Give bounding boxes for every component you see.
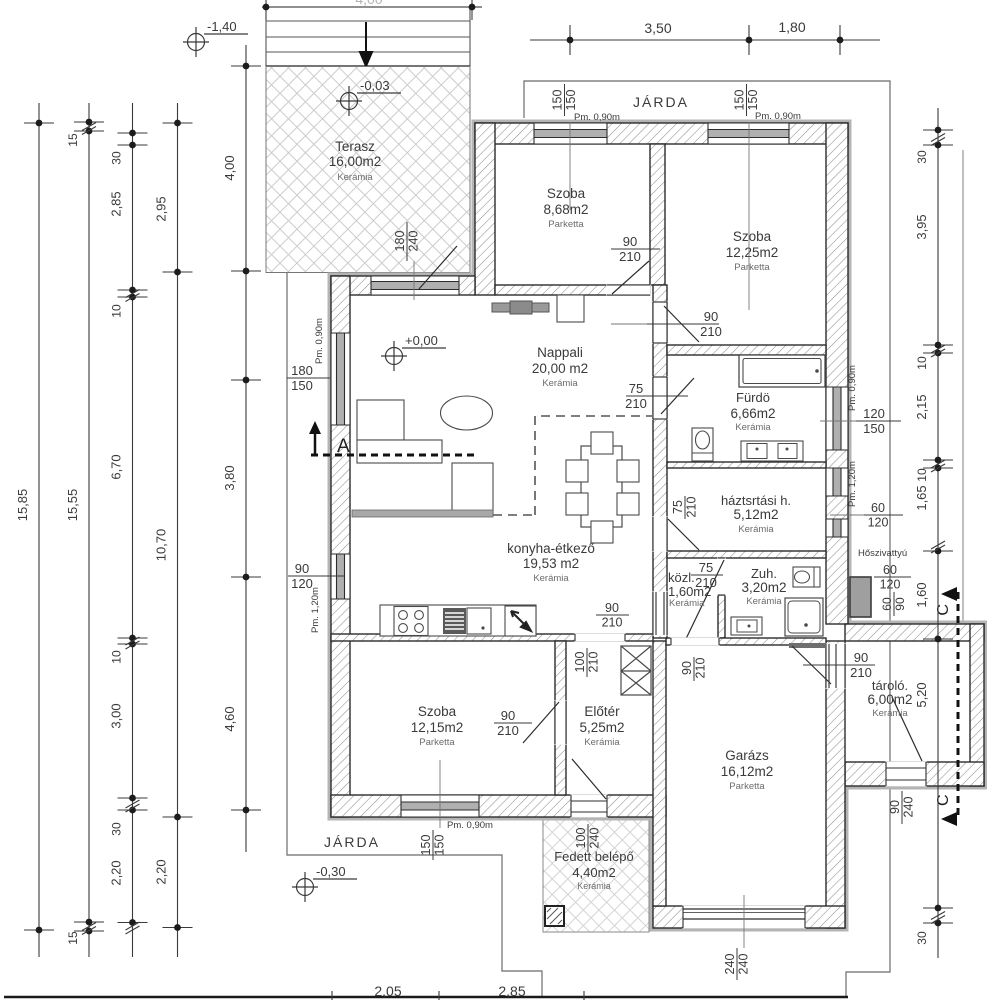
svg-text:3,50: 3,50 xyxy=(644,20,671,36)
svg-text:16,12m2: 16,12m2 xyxy=(721,764,774,779)
svg-text:240: 240 xyxy=(723,954,737,975)
svg-text:10: 10 xyxy=(915,468,929,482)
wall: partition háztartási | közl+Zuh xyxy=(667,551,826,558)
room label: közl. xyxy=(668,570,711,609)
svg-text:75: 75 xyxy=(671,500,685,514)
svg-text:150: 150 xyxy=(433,835,447,856)
svg-text:háztsrtási h.: háztsrtási h. xyxy=(721,493,791,508)
svg-text:150: 150 xyxy=(551,90,565,111)
covered entry (Fedett belépő) slab xyxy=(543,820,649,932)
wall: partition Szoba 12,15 | Előtér xyxy=(555,641,566,795)
svg-text:5,12m2: 5,12m2 xyxy=(733,507,778,522)
level marker: +0,00 xyxy=(381,341,446,371)
oven xyxy=(443,608,466,634)
section marker C top xyxy=(935,587,958,700)
window: konyha left window 90/120 xyxy=(331,554,350,599)
door opening: Szoba 8,68 xyxy=(606,284,650,295)
door leaf: Szoba 12,25 xyxy=(664,306,699,342)
svg-text:150: 150 xyxy=(733,90,747,111)
svg-text:90: 90 xyxy=(888,800,902,814)
svg-text:90: 90 xyxy=(854,650,868,665)
svg-text:Kerámia: Kerámia xyxy=(735,422,771,433)
svg-text:2,20: 2,20 xyxy=(109,860,124,885)
svg-text:Parketta: Parketta xyxy=(419,737,455,748)
wall: partition közl | Zuh xyxy=(718,595,725,638)
svg-text:5,25m2: 5,25m2 xyxy=(579,720,624,735)
svg-text:Kerámia: Kerámia xyxy=(533,573,569,584)
wall: garage left xyxy=(653,641,666,906)
wall: tároló right xyxy=(970,624,984,786)
svg-text:120: 120 xyxy=(880,578,901,592)
svg-text:JÁRDA: JÁRDA xyxy=(633,94,689,110)
wall: partition Fürdő | háztartási xyxy=(667,462,826,468)
svg-text:240: 240 xyxy=(588,828,602,849)
svg-text:150: 150 xyxy=(291,378,313,393)
stairs down arrow xyxy=(360,22,372,66)
label: 90/210 tároló door xyxy=(803,650,875,680)
door leaf: Fürdő xyxy=(661,378,694,414)
svg-text:2,95: 2,95 xyxy=(154,196,169,221)
svg-text:15: 15 xyxy=(66,931,80,945)
dining chair 4 xyxy=(566,493,588,515)
svg-text:Kerámia: Kerámia xyxy=(584,737,620,748)
window: Szoba 12,25 top window 150/150 xyxy=(708,123,789,144)
window: háztartási right window 60/120 b xyxy=(826,519,848,537)
door opening: Szoba 12,15 xyxy=(554,700,566,744)
svg-text:210: 210 xyxy=(619,249,641,264)
svg-text:150: 150 xyxy=(863,421,885,436)
wall: partition Szoba 12,25 | Fürdő xyxy=(667,345,826,355)
svg-text:30: 30 xyxy=(915,150,929,164)
label: 90/210 Szoba 8,68 door xyxy=(611,234,660,264)
door leaf: Zuh xyxy=(683,560,724,645)
label: 75/210 háztartási door xyxy=(671,496,699,519)
svg-text:12,25m2: 12,25m2 xyxy=(726,245,779,260)
svg-text:4,00: 4,00 xyxy=(355,0,382,7)
wall: exterior left xyxy=(331,276,350,817)
plot bottom border line xyxy=(4,996,848,999)
svg-text:Kerámia: Kerámia xyxy=(669,598,705,609)
room label: tároló. xyxy=(867,678,912,719)
wall: tároló top xyxy=(845,624,984,641)
label: 120/150 Fürdő window xyxy=(856,406,901,436)
fürdő window leader xyxy=(820,420,856,422)
svg-text:tároló.: tároló. xyxy=(872,678,908,693)
svg-text:240: 240 xyxy=(902,797,916,818)
room label: Szoba 8,68 xyxy=(543,186,588,230)
WC (Zuh) xyxy=(793,567,820,587)
svg-text:90: 90 xyxy=(501,708,515,723)
top dimension line 3,50/1,80 xyxy=(530,25,880,55)
svg-text:30: 30 xyxy=(110,151,124,165)
svg-text:150: 150 xyxy=(419,835,433,856)
wall: Nappali top (to terrace) xyxy=(331,276,475,295)
window: Szoba 8,68 top window 150/150 xyxy=(534,123,607,144)
door leaf: Szoba 12,15 xyxy=(523,702,559,743)
sideboard (Nappali top) xyxy=(492,303,549,312)
rug (oval, Nappali) xyxy=(441,396,493,430)
svg-text:4,00: 4,00 xyxy=(222,155,237,180)
section marker C bottom xyxy=(935,700,958,826)
svg-text:60: 60 xyxy=(871,501,885,515)
label: 60/120 heat pump xyxy=(874,563,911,592)
WC (Fürdő) xyxy=(692,428,713,461)
label: 90/210 Szoba 12,15 door xyxy=(494,708,532,738)
svg-text:Pm. 0,90m: Pm. 0,90m xyxy=(755,111,801,122)
svg-text:Kerámia: Kerámia xyxy=(577,881,611,891)
door threshold garage/tároló xyxy=(789,643,826,648)
svg-text:10: 10 xyxy=(110,650,124,664)
svg-text:1,65: 1,65 xyxy=(914,485,929,510)
svg-text:30: 30 xyxy=(915,931,929,945)
exterior plaster band xyxy=(331,123,984,928)
kitchen counter block C xyxy=(452,463,493,514)
door opening: háztartási h. xyxy=(652,516,667,551)
door leaf: Szoba 8,68 xyxy=(612,261,649,294)
kitchen worktop edge xyxy=(352,510,493,517)
svg-text:Parketta: Parketta xyxy=(734,262,770,273)
svg-text:Kerámia: Kerámia xyxy=(542,378,578,389)
kitchen counter block B xyxy=(357,440,442,463)
dimension chain: left 4 xyxy=(154,103,193,957)
svg-text:100: 100 xyxy=(574,828,588,849)
doormat (Fedett belépő) xyxy=(545,906,564,926)
wall: partition Szoba 8,68 bottom xyxy=(495,285,650,295)
kitchen area dashed boundary xyxy=(493,416,652,515)
svg-text:20,00 m2: 20,00 m2 xyxy=(532,361,588,376)
svg-text:240: 240 xyxy=(407,231,421,252)
label: 100/240 entrance door xyxy=(574,824,602,852)
svg-text:Pm. 0,90m: Pm. 0,90m xyxy=(447,820,493,831)
svg-text:15,85: 15,85 xyxy=(15,489,30,522)
svg-text:Pm. 0,90m: Pm. 0,90m xyxy=(847,365,858,411)
svg-text:210: 210 xyxy=(850,665,872,680)
dishwasher (electric symbol) xyxy=(505,606,536,636)
door opening: entrance (Előtér) xyxy=(570,794,607,817)
label: 180/150 Nappali window xyxy=(287,363,330,393)
svg-text:JÁRDA: JÁRDA xyxy=(324,834,380,850)
svg-text:16,00m2: 16,00m2 xyxy=(329,154,382,169)
svg-text:5,20: 5,20 xyxy=(914,682,929,707)
svg-text:3,00: 3,00 xyxy=(109,703,124,728)
svg-text:3,95: 3,95 xyxy=(914,214,929,239)
label: 90/210 közl opening xyxy=(596,601,629,630)
svg-text:210: 210 xyxy=(685,497,699,518)
terrace door leader xyxy=(413,261,415,300)
wall: exterior bottom (Szoba 12,15 + Előtér) xyxy=(331,795,666,817)
door opening: Fürdő xyxy=(652,376,667,419)
svg-text:közl.: közl. xyxy=(668,570,695,585)
svg-text:Nappali: Nappali xyxy=(537,345,583,360)
svg-text:Kerámia: Kerámia xyxy=(738,524,774,535)
svg-text:Fürdö: Fürdö xyxy=(736,390,770,405)
svg-text:Szoba: Szoba xyxy=(733,229,772,244)
svg-text:15,55: 15,55 xyxy=(65,489,80,522)
wall: partition közl/Zuh | garage xyxy=(666,638,826,645)
section marker A xyxy=(309,421,478,457)
svg-text:210: 210 xyxy=(497,723,519,738)
wall: partition Szoba 8,68 | Szoba 12,25 xyxy=(650,144,665,285)
svg-text:Parketta: Parketta xyxy=(729,781,765,792)
svg-text:Zuh.: Zuh. xyxy=(751,566,777,581)
room label: Szoba 12,25 xyxy=(726,229,779,273)
svg-text:Pm. 1,20m: Pm. 1,20m xyxy=(847,461,858,507)
label: 100/210 konyha-Előtér xyxy=(573,648,601,677)
svg-text:180: 180 xyxy=(393,231,407,252)
terrace (Terasz) slab xyxy=(266,67,470,273)
double washbasin (Fürdő) xyxy=(741,441,803,461)
svg-text:90: 90 xyxy=(295,561,309,576)
dining chair 5 xyxy=(617,460,639,482)
door opening: garage gate xyxy=(682,905,805,928)
svg-text:30: 30 xyxy=(110,822,124,836)
svg-text:+0,00: +0,00 xyxy=(405,333,438,348)
svg-text:210: 210 xyxy=(694,658,708,679)
room label: Zuh. xyxy=(741,566,786,607)
svg-text:6,66m2: 6,66m2 xyxy=(730,406,775,421)
window: Szoba 12,15 bottom window 150/150 xyxy=(401,795,479,817)
svg-text:90: 90 xyxy=(704,309,718,324)
door leaf: garage to tároló xyxy=(792,646,831,684)
svg-text:Pm. 0,90m: Pm. 0,90m xyxy=(314,318,325,364)
dining table xyxy=(581,446,622,527)
svg-text:90: 90 xyxy=(623,234,637,249)
window: Nappali left window 180/150 xyxy=(331,333,350,425)
svg-text:210: 210 xyxy=(625,396,647,411)
háztartási window leader xyxy=(830,514,864,516)
room label: Fürdő xyxy=(730,390,775,433)
svg-text:1,80: 1,80 xyxy=(778,19,805,35)
label: 150/150 window Szoba 8,68 xyxy=(551,84,579,116)
svg-text:90: 90 xyxy=(605,601,619,615)
svg-text:150: 150 xyxy=(746,90,760,111)
label: 60/90 heat pump xyxy=(880,592,907,616)
door leaf: háztartási h. xyxy=(668,519,699,550)
room label: Előtér xyxy=(579,704,624,748)
washbasin (Zuh) xyxy=(731,617,762,635)
svg-text:15: 15 xyxy=(66,133,80,147)
svg-text:Terasz: Terasz xyxy=(335,139,375,154)
label: 90/240 tároló ext door xyxy=(888,791,916,824)
svg-text:210: 210 xyxy=(602,616,623,630)
svg-text:90: 90 xyxy=(893,597,907,611)
svg-text:Parketta: Parketta xyxy=(548,219,584,230)
svg-text:Előtér: Előtér xyxy=(584,704,620,719)
svg-text:60: 60 xyxy=(880,597,894,611)
kitchen appliance counter xyxy=(380,605,536,636)
dining chair 3 xyxy=(566,460,588,482)
wall: garage right xyxy=(826,641,845,928)
dimension chain: left 3 xyxy=(109,103,148,957)
svg-text:Pm. 0,90m: Pm. 0,90m xyxy=(574,112,620,123)
svg-text:2,20: 2,20 xyxy=(154,859,169,884)
svg-text:-1,40: -1,40 xyxy=(207,19,237,34)
svg-text:10: 10 xyxy=(915,356,929,370)
room label: Szoba 12,15 xyxy=(411,704,464,748)
door opening: konyha to Előtér passage xyxy=(574,633,625,641)
svg-text:Szoba: Szoba xyxy=(418,704,457,719)
svg-text:3,20m2: 3,20m2 xyxy=(741,580,786,595)
svg-text:210: 210 xyxy=(587,652,601,673)
door opening: közl to garage xyxy=(670,637,719,645)
door leaf: terrace french door xyxy=(419,246,457,289)
dimension chain: left 5 (house left) xyxy=(222,45,261,852)
svg-text:240: 240 xyxy=(737,954,751,975)
svg-text:3,80: 3,80 xyxy=(222,465,237,490)
door opening: közl from konyha xyxy=(652,591,667,635)
kitchen sink xyxy=(467,608,491,634)
svg-text:Pm. 1,20m: Pm. 1,20m xyxy=(310,587,321,633)
window: háztartási right window 60/120 a xyxy=(826,468,848,496)
label: 60/120 háztartási window xyxy=(864,501,903,530)
svg-text:konyha-étkező: konyha-étkező xyxy=(507,541,595,556)
shower tray (Zuh) xyxy=(785,598,823,636)
svg-text:60: 60 xyxy=(883,563,897,577)
svg-text:2,85: 2,85 xyxy=(109,191,124,216)
bathtub xyxy=(739,355,825,387)
dining chair 1 xyxy=(591,432,613,454)
svg-text:210: 210 xyxy=(695,575,717,590)
svg-text:Kerámia: Kerámia xyxy=(746,596,782,607)
dimension chain: left 1 (15,85) xyxy=(15,103,54,957)
svg-text:6,70: 6,70 xyxy=(109,454,124,479)
svg-text:19,53 m2: 19,53 m2 xyxy=(523,556,579,571)
svg-text:Hőszivattyú: Hőszivattyú xyxy=(858,548,907,559)
label: 150/150 bottom window xyxy=(419,830,447,860)
kitchen counter block A xyxy=(357,400,404,440)
window leader Szoba 12,25 xyxy=(748,122,750,310)
svg-text:120: 120 xyxy=(863,406,885,421)
dimension chain: left 2 (15,55) xyxy=(65,103,104,957)
room label: konyha-étkező xyxy=(507,541,595,584)
svg-text:10: 10 xyxy=(110,304,124,318)
label: 90/210 közl-garage door xyxy=(680,657,708,681)
label: 180/240 terrace door xyxy=(393,222,421,261)
top cut dimension line xyxy=(262,0,482,20)
room label: Terasz xyxy=(329,139,382,183)
svg-text:Szoba: Szoba xyxy=(547,186,586,201)
sidewalk boundary (JÁRDA) top/right xyxy=(524,81,890,996)
room label: Fedett belépő xyxy=(554,849,634,891)
svg-text:4,40m2: 4,40m2 xyxy=(572,865,615,880)
label: 150/150 window Szoba 12,25 xyxy=(733,84,761,116)
garage gate leader xyxy=(743,895,745,948)
svg-text:100: 100 xyxy=(573,652,587,673)
wall: partition Nappali | east rooms xyxy=(653,285,667,638)
svg-text:90: 90 xyxy=(680,661,694,675)
svg-text:180: 180 xyxy=(291,363,313,378)
bottom window leader xyxy=(439,760,441,828)
neighbour boundary line right xyxy=(962,150,964,621)
wall: exterior top xyxy=(475,123,848,144)
label: 75/210 Fürdő door xyxy=(625,381,688,411)
svg-text:Fedett belépő: Fedett belépő xyxy=(554,849,634,864)
svg-text:10,70: 10,70 xyxy=(154,529,169,562)
level marker: -0,03 xyxy=(336,86,401,116)
room label: Garázs xyxy=(721,748,774,792)
wall: garage bottom xyxy=(653,906,845,928)
label: 90/120 konyha window xyxy=(288,561,345,591)
wall: exterior left upper (Szoba 8,68 left) xyxy=(475,123,495,295)
cooktop (4 burners) xyxy=(394,607,428,636)
szoba 12,25 door leader xyxy=(611,323,647,325)
dining chair 2 xyxy=(591,521,613,543)
door leaf: tároló exterior xyxy=(892,697,922,761)
svg-text:150: 150 xyxy=(564,90,578,111)
svg-text:4,60: 4,60 xyxy=(222,706,237,731)
heat pump (Hőszivattyú) xyxy=(850,577,871,617)
level marker: -1,40 xyxy=(183,27,248,57)
door opening: Szoba 12,25 xyxy=(652,301,667,343)
wall: partition konyha | Szoba 12,15/Előtér xyxy=(331,634,653,641)
window: Fürdő right window 120/150 xyxy=(826,387,848,450)
svg-text:Kerámia: Kerámia xyxy=(872,708,908,719)
door opening: tároló exterior xyxy=(885,761,926,786)
dimension chain: right (house right) xyxy=(914,108,953,958)
wall: tároló bottom xyxy=(845,762,984,786)
svg-text:Kerámia: Kerámia xyxy=(337,172,373,183)
svg-text:12,15m2: 12,15m2 xyxy=(411,720,464,735)
label: 240/240 garage gate xyxy=(723,948,751,980)
svg-text:-0,30: -0,30 xyxy=(316,864,346,879)
room label: Nappali xyxy=(532,345,588,389)
door opening: garage to tároló xyxy=(825,643,845,688)
label: 90/210 Szoba 12,25 door xyxy=(647,309,722,339)
svg-text:-0,03: -0,03 xyxy=(360,78,390,93)
label: 75/210 Zuh door xyxy=(691,560,723,590)
svg-text:2,15: 2,15 xyxy=(914,394,929,419)
window: terrace french door 180/240 xyxy=(371,276,459,295)
room label: háztartási h. xyxy=(721,493,791,535)
sidewalk boundary (JÁRDA) left/bottom xyxy=(287,273,542,996)
svg-text:Garázs: Garázs xyxy=(725,748,769,763)
svg-text:2,05: 2,05 xyxy=(374,983,401,999)
wall: exterior right xyxy=(826,123,848,624)
svg-text:8,68m2: 8,68m2 xyxy=(543,202,588,217)
stairs to terrace xyxy=(266,7,470,66)
door leaf: entrance xyxy=(572,759,606,799)
level marker: -0,30 xyxy=(292,872,357,902)
chimney flue (konyha/Előtér) xyxy=(621,646,651,695)
cabinet right of sideboard xyxy=(557,295,584,322)
dining chair 6 xyxy=(617,493,639,515)
svg-text:6,00m2: 6,00m2 xyxy=(867,692,912,707)
svg-text:120: 120 xyxy=(868,516,889,530)
svg-text:75: 75 xyxy=(699,560,713,575)
svg-text:1,60: 1,60 xyxy=(914,582,929,607)
bottom dimension 2,05 / 2,85 xyxy=(332,991,584,1000)
svg-text:75: 75 xyxy=(629,381,643,396)
door opening: Zuh xyxy=(717,557,725,595)
svg-text:210: 210 xyxy=(700,324,722,339)
svg-text:2,85: 2,85 xyxy=(498,983,525,999)
window leader Szoba 8,68 xyxy=(569,122,571,210)
